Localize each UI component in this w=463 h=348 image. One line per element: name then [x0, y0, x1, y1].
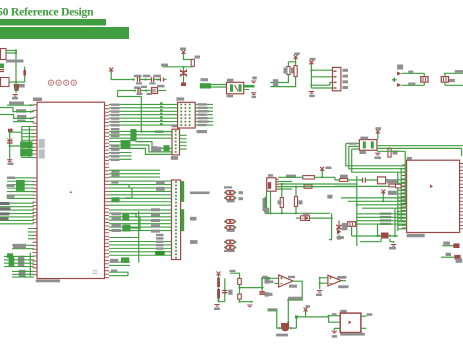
wire nubs right of J4: [180, 135, 187, 149]
crystal X1: [227, 82, 244, 94]
svg-text:50 Reference Design: 50 Reference Design: [0, 5, 94, 19]
value label: [19, 84, 25, 88]
wire led row1: [442, 245, 453, 247]
wire bottom mid: [265, 197, 330, 214]
wire: [111, 71, 134, 80]
net label long: [190, 192, 210, 195]
led D6: [453, 243, 459, 248]
wire comb to J4: [109, 131, 172, 138]
capacitor C8b: [161, 78, 164, 82]
mounting hole H1: [48, 80, 53, 85]
transformer T1: [378, 177, 386, 184]
mounting hole H2: [56, 80, 61, 85]
phy U2 body: [407, 160, 460, 232]
resistor R19 on bus row: [304, 185, 312, 188]
wire nested elbows to J4: [136, 142, 172, 149]
op-amp U4A: [279, 275, 293, 287]
node cross: [392, 78, 397, 83]
wire thick stub: [244, 85, 255, 88]
polarized capacitor C9: [152, 88, 158, 94]
net label stack left of J5 bottom: [156, 234, 163, 236]
net label: [161, 64, 168, 67]
wire feeder vertical: [29, 253, 31, 278]
wire comb bank3 with labels at left edge: [0, 203, 34, 224]
expansion conn J5: [172, 180, 181, 260]
wire comb U1 to J5 mid: [109, 210, 172, 231]
txrx label stack: [380, 213, 392, 215]
resistor array RN1: [16, 180, 25, 191]
capacitor row C5-C8: [138, 77, 140, 82]
audio jack J7: [340, 313, 361, 332]
wire address bus comb: [109, 104, 178, 125]
transistor Q3: [281, 323, 289, 331]
regulator U3: [1, 78, 10, 87]
wire led row2: [441, 256, 454, 258]
net labels: [111, 212, 121, 215]
U1 inside pin-name labels: [39, 139, 45, 148]
wire comb U1 to J5 lower: [109, 242, 172, 256]
capacitor C2: [7, 141, 12, 144]
wire: [262, 278, 270, 288]
ground: [309, 92, 314, 94]
U1 right pins: [105, 105, 110, 277]
wire jack right stubs: [361, 316, 367, 328]
crystal Y1 block 2: [20, 149, 32, 157]
net label: [134, 75, 141, 77]
capacitor C4: [7, 253, 13, 258]
gnd label: [12, 97, 18, 100]
header J2 labels: [343, 69, 349, 72]
inductor L1: [200, 83, 211, 88]
power vcc arrow bias: [217, 272, 221, 277]
diode D4: [337, 229, 341, 235]
U2 left pins: [402, 165, 407, 228]
diode D1: [23, 70, 26, 76]
green blocks mid right of U1: [111, 197, 119, 202]
wire: [240, 285, 264, 288]
wire output + feedback U4A: [288, 281, 302, 323]
resistor R10: [389, 184, 396, 187]
wire rows to U2: [341, 198, 407, 208]
power vcc arrow 3: [294, 55, 298, 60]
net labels left of J5: [156, 181, 165, 185]
memory conn J4: [172, 129, 180, 155]
capacitor C17: [260, 292, 265, 294]
wire jack gnd: [334, 328, 340, 330]
capacitor C10: [183, 67, 185, 86]
resistor R6: [287, 67, 290, 75]
net label top: [224, 250, 234, 252]
capacitor C1: [0, 64, 4, 69]
wire mid bus rows: [278, 177, 357, 189]
green blocks right of J5: [181, 181, 185, 202]
wire bus verticals: [22, 127, 30, 158]
wire: [230, 273, 240, 278]
node junction: [15, 81, 17, 83]
power vcc arrow: [109, 68, 113, 73]
wire: [402, 73, 425, 85]
power input connector J1: [1, 49, 7, 60]
reset part R2: [8, 129, 13, 133]
power vcc arrow X2: [376, 130, 380, 135]
wire rows below J4 bank: [109, 153, 132, 160]
mounting hole H4: [71, 80, 76, 85]
wire comb U1 to J5 upper: [109, 181, 172, 205]
net label P1: [239, 191, 244, 194]
resistor R11: [303, 176, 315, 179]
wire rows y245: [12, 245, 34, 248]
net labels addr bus: [111, 104, 120, 106]
resistor R12: [280, 198, 283, 208]
J4 top label: [172, 124, 178, 127]
net label on elbows: [151, 147, 161, 152]
U1 part name label: [36, 280, 60, 283]
op-amp U4B: [328, 275, 341, 286]
capacitor C16: [259, 292, 264, 294]
wire comb bank2: [7, 178, 34, 199]
wire comb RN2 rows: [4, 256, 30, 266]
mounting hole H3: [64, 80, 69, 85]
wire: [270, 75, 295, 87]
led D7: [454, 255, 460, 260]
wire: [268, 311, 281, 328]
ground Q2: [391, 245, 396, 247]
net label: [134, 86, 141, 88]
wires through label stack: [357, 214, 407, 224]
resistor R8: [388, 148, 391, 157]
wire comb U1 right bottom rows: [109, 237, 139, 239]
net labels bank2: [7, 177, 15, 180]
resistor R15: [217, 289, 220, 299]
mic connector J6: [267, 178, 276, 191]
net labels phy: [387, 179, 398, 183]
net labels left of X2: [349, 143, 357, 145]
wire feeder from caps to J3: [141, 131, 172, 133]
wire right of J3: [195, 104, 213, 125]
ground flag bottom: [251, 93, 256, 95]
cpu U1 body: [37, 102, 105, 278]
resistor R13: [294, 197, 297, 207]
green blocks data bus: [130, 129, 136, 141]
net labels left of pairs: [190, 217, 197, 221]
U2 part label: [407, 234, 425, 238]
power vcc arrow 4: [309, 60, 313, 65]
wire output U4B: [341, 280, 346, 282]
wire: [311, 64, 332, 88]
node junction: [15, 49, 17, 51]
U1 left pins: [33, 105, 38, 275]
power vcc arrow mid: [320, 167, 324, 172]
vertical feeder: [138, 211, 140, 263]
ground X2: [375, 153, 380, 155]
net labels bank3: [0, 202, 10, 205]
power vcc arrow jack: [304, 308, 308, 313]
nested wire loops: [346, 144, 360, 147]
shielded pair: [267, 191, 271, 213]
resistor R18 near U2: [396, 184, 402, 188]
wire inputs U4B: [320, 278, 328, 289]
J3 center pin marks: [185, 104, 187, 106]
diode D5: [301, 216, 310, 221]
feeder vertical right: [377, 151, 405, 231]
net labels bottom: [110, 259, 118, 263]
wires U1 right bank2 w/ labels: [109, 170, 160, 177]
ground: [7, 160, 12, 162]
wire nubs bank4: [28, 229, 34, 239]
wire staircase to U1 left pins: [7, 104, 34, 106]
power vcc arrow 2: [182, 50, 186, 55]
resistor R17: [238, 294, 242, 299]
capacitor C18: [336, 221, 341, 234]
memory conn J3: [178, 102, 196, 128]
wire inputs U4A: [262, 278, 278, 291]
long wires to right edge: [377, 146, 463, 156]
wire: [15, 82, 17, 93]
ground U4B: [317, 291, 322, 293]
wire: [288, 59, 295, 67]
power vcc arrow phy: [381, 190, 385, 195]
ground flag top: [251, 81, 256, 83]
title bar 1: [0, 19, 106, 26]
U1 refdes label: [33, 98, 42, 102]
wire: [211, 85, 227, 88]
wire: [6, 51, 16, 83]
net label jack right: [367, 313, 373, 316]
wire bottom phy: [352, 208, 398, 236]
wire: [360, 239, 394, 244]
U2 right pins: [460, 164, 463, 229]
wire: [444, 73, 463, 85]
resistor R7: [294, 66, 297, 77]
green block lower left of J5: [155, 251, 165, 255]
bus taps column: [160, 102, 162, 104]
wire phy top rows: [335, 180, 402, 186]
wire: [321, 170, 323, 177]
capacitor C15: [222, 291, 227, 293]
ground: [13, 95, 18, 97]
net labels mid: [111, 128, 120, 130]
net labels left of U1: [9, 102, 24, 105]
net label P2: [239, 197, 244, 200]
ground bias: [214, 305, 219, 307]
wire row2 hook: [118, 91, 142, 132]
ground: [336, 238, 341, 240]
resistor R14: [217, 278, 220, 288]
wire comb to U1 pins: [22, 127, 34, 158]
polarized capacitor C11: [421, 77, 428, 83]
capacitor C13: [363, 178, 366, 183]
ground: [247, 305, 252, 307]
wire comb bottom short: [109, 262, 130, 265]
wire: [296, 213, 332, 239]
crystal X2: [359, 140, 377, 151]
crystal Y1 block: [20, 141, 32, 148]
wire: [162, 65, 193, 68]
net label: [268, 308, 278, 310]
net label: [6, 60, 24, 63]
resistor R5: [191, 59, 194, 66]
polarized capacitor C14: [348, 222, 356, 227]
series resistor pair RP2: [224, 221, 226, 223]
capacitor row2: [138, 88, 140, 93]
wire comb into U2 left pins: [398, 180, 407, 229]
wire comb y271-277: [12, 271, 30, 277]
wire: [296, 311, 340, 322]
resistor array RN2: [9, 256, 15, 267]
series resistor pair RP1: [224, 192, 226, 194]
resistor block: [163, 145, 169, 151]
wire: [377, 133, 379, 140]
junction dots staircase: [30, 104, 32, 106]
resistor R9: [340, 179, 348, 182]
green staircase mid: [109, 185, 132, 199]
wire: [10, 131, 22, 161]
wire elbow bottom: [109, 272, 128, 276]
wire: [9, 81, 25, 83]
wire verticals phy: [357, 176, 384, 246]
tvs diodes D2 D3: [397, 72, 402, 76]
resistor R16: [238, 278, 242, 284]
transistor Q2: [381, 233, 389, 239]
wire: [219, 275, 225, 302]
net labels right of J3: [198, 103, 207, 105]
net labels left of J4: [155, 130, 164, 133]
wire: [184, 54, 193, 61]
series resistor pair RP3: [224, 241, 226, 243]
net labels y270: [19, 270, 26, 277]
junction node: [295, 315, 298, 318]
header J2: [333, 67, 341, 90]
title bar 2: [0, 27, 129, 39]
transistor Q1: [14, 84, 20, 91]
jack part label: [340, 333, 365, 336]
polarized capacitor C12: [441, 77, 448, 83]
wire: [288, 318, 296, 328]
net label: [13, 244, 26, 249]
net labels RN2: [18, 256, 24, 267]
staircase wires mid2: [131, 214, 141, 230]
